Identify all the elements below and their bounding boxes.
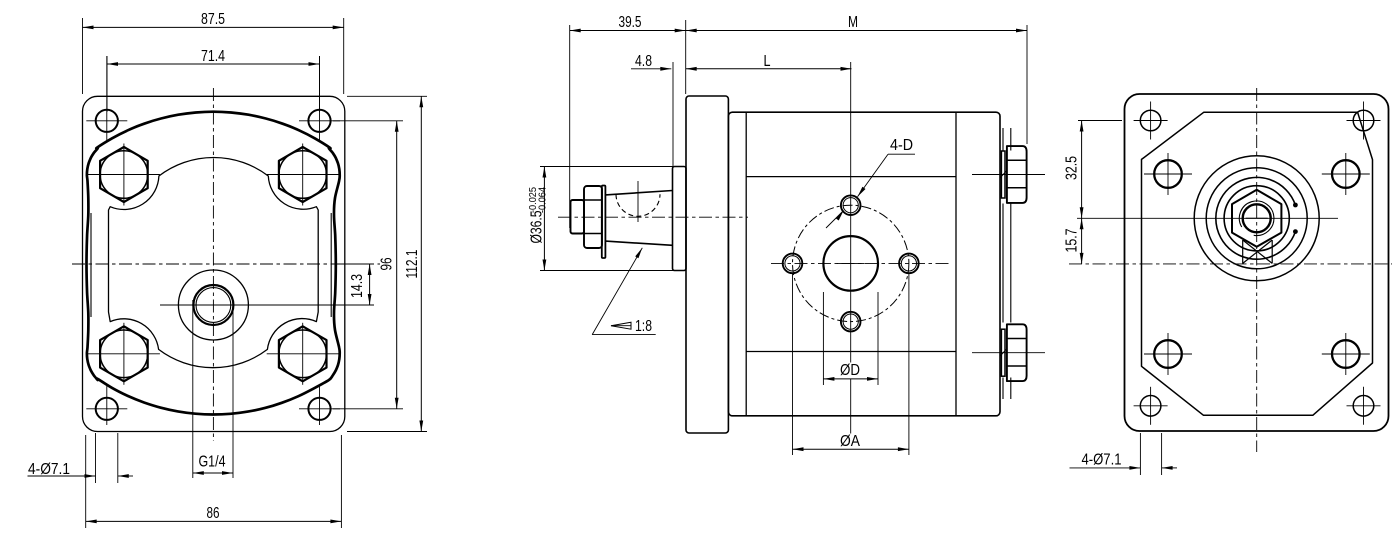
- svg-text:ØA: ØA: [840, 433, 860, 450]
- svg-text:Ø36.5: Ø36.5: [529, 211, 546, 244]
- svg-text:4.8: 4.8: [635, 53, 652, 70]
- svg-text:86: 86: [207, 505, 220, 522]
- svg-text:-0.064: -0.064: [538, 187, 549, 213]
- svg-text:96: 96: [379, 257, 396, 270]
- svg-text:32.5: 32.5: [1064, 156, 1081, 180]
- svg-text:39.5: 39.5: [619, 14, 642, 31]
- svg-text:4-Ø7.1: 4-Ø7.1: [1082, 452, 1122, 469]
- svg-text:14.3: 14.3: [349, 274, 366, 298]
- svg-text:15.7: 15.7: [1064, 228, 1081, 252]
- svg-text:1:8: 1:8: [635, 318, 652, 335]
- svg-text:4-D: 4-D: [890, 137, 913, 154]
- svg-text:112.1: 112.1: [404, 249, 421, 278]
- svg-text:G1/4: G1/4: [199, 454, 226, 471]
- svg-text:L: L: [764, 53, 771, 70]
- svg-text:M: M: [848, 14, 858, 31]
- svg-text:87.5: 87.5: [201, 11, 225, 28]
- svg-text:71.4: 71.4: [201, 48, 225, 65]
- svg-text:4-Ø7.1: 4-Ø7.1: [28, 461, 70, 478]
- svg-text:ØD: ØD: [840, 362, 860, 379]
